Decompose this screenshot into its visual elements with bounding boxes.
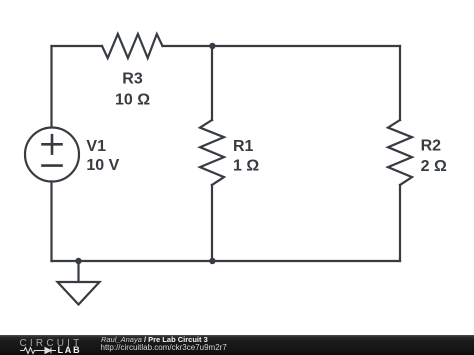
node at ground junction (75, 258, 81, 264)
wire middle vertical lower segment (211, 185, 213, 261)
svg-text:10 V: 10 V (86, 157, 119, 174)
resistor R3 (102, 34, 163, 58)
CircuitLab logo icon (resistor + diode) (20, 346, 60, 355)
wire left vertical lower segment (50, 182, 52, 262)
wire bottom horizontal segment (52, 260, 401, 262)
svg-text:10 Ω: 10 Ω (115, 92, 150, 109)
svg-text:R1: R1 (233, 138, 254, 155)
resistor R2 (388, 120, 412, 185)
svg-text:2 Ω: 2 Ω (421, 158, 447, 175)
footer title text (101, 335, 208, 344)
CircuitLab logo text CIRCUIT (20, 338, 83, 349)
resistor R1 (200, 120, 224, 185)
wire right vertical upper segment (399, 46, 401, 120)
wire left vertical upper segment (50, 46, 52, 128)
voltage source V1 (25, 128, 79, 182)
CircuitLab logo text LAB (58, 345, 82, 355)
svg-text:1 Ω: 1 Ω (233, 158, 259, 175)
svg-text:R3: R3 (122, 71, 143, 88)
svg-text:R2: R2 (421, 138, 442, 155)
wire top-left horizontal segment (52, 45, 103, 47)
wire right vertical lower segment (399, 185, 401, 261)
node at bottom junction of R1 (209, 258, 215, 264)
wire top-right horizontal segment (163, 45, 401, 47)
ground (58, 282, 100, 305)
footer bar (0, 335, 474, 355)
svg-text:V1: V1 (86, 138, 106, 155)
wire middle vertical upper segment (211, 46, 213, 120)
node at top junction of R1 (209, 43, 215, 49)
footer url text (101, 343, 227, 352)
wire ground stub (77, 261, 79, 282)
